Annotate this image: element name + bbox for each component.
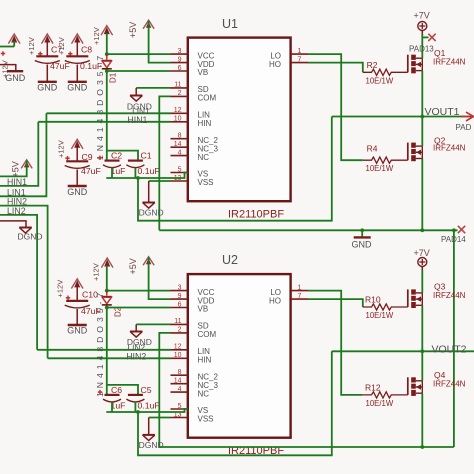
wire Q4 drain to VOUT2 [421, 351, 423, 381]
wire +12V far-left to edge [13, 41, 15, 47]
ground GND for C7 [38, 81, 57, 83]
U1 pin 10 HIN stub [171, 121, 188, 123]
svg-text:9: 9 [178, 56, 182, 63]
svg-text:GND: GND [352, 239, 373, 249]
power symbol +5V for U2 VDD [143, 257, 154, 266]
U1 pin 5 VS stub [171, 172, 188, 174]
svg-text:11: 11 [174, 318, 181, 325]
power symbol +12V for U2 VCC [101, 258, 113, 268]
wire VB row U1 [107, 70, 171, 72]
resistor R12 10E/1W [363, 392, 408, 398]
svg-text:IRFZ44N: IRFZ44N [433, 144, 466, 153]
svg-text:+12V: +12V [27, 37, 36, 55]
svg-text:GND: GND [67, 187, 88, 197]
svg-text:IR2110PBF: IR2110PBF [228, 209, 284, 221]
svg-text:HO: HO [269, 296, 281, 305]
wire VB U2 down to bootstrap caps [106, 308, 108, 395]
wire right-edge ground vertical [453, 230, 455, 447]
wire LIN row U2 from net LIN2 [37, 349, 170, 351]
svg-text:C5: C5 [141, 385, 152, 395]
off-page arrow VOUT1 [461, 116, 474, 118]
wire SD U2 to DGND [136, 323, 170, 325]
svg-text:U2: U2 [222, 253, 238, 267]
power symbol +12V for C7 [42, 34, 54, 44]
no-connect X PAD14 [458, 226, 465, 233]
wire to DGND far-left [0, 221, 26, 228]
ground GND on bus [361, 230, 363, 237]
U1 pin 12 LIN stub [171, 112, 188, 114]
digital ground DGND at U2 VSS [143, 434, 155, 436]
U1 pin 8 NC_2 stub [171, 138, 188, 140]
svg-text:VB: VB [198, 68, 209, 77]
node junction +12V/VCC [105, 52, 109, 56]
capacitor C5 0.1uF [128, 394, 143, 396]
svg-text:+7V: +7V [414, 11, 430, 21]
capacitor C9 47uF [76, 146, 78, 161]
wire +7V to Q1 drain [421, 31, 423, 35]
wire COM U1 down to ground bus [159, 96, 170, 230]
wire bootstrap caps bottom to VS U1 [106, 173, 188, 179]
svg-text:10E/1W: 10E/1W [366, 399, 394, 408]
U2 pin 9 VDD stub [171, 298, 188, 300]
svg-text:11: 11 [174, 82, 181, 89]
svg-text:12: 12 [174, 344, 182, 351]
svg-text:C8: C8 [81, 45, 92, 55]
svg-text:+12V: +12V [92, 27, 101, 45]
svg-text:2: 2 [178, 90, 182, 97]
wire ground bus below U2 [159, 446, 454, 448]
svg-text:47uF: 47uF [81, 166, 101, 176]
U2 pin 1 LO stub [291, 290, 308, 292]
wire HIN row U1 from net HIN1 [38, 121, 170, 123]
transistor Q1 IRFZ44N [407, 55, 409, 73]
gate driver IC U2 IR2110PBF body [188, 274, 291, 438]
svg-text:R12: R12 [365, 383, 381, 393]
resistor R10 10E/1W [363, 304, 408, 310]
svg-text:1: 1 [298, 284, 302, 291]
U2 pin 13 VSS stub [171, 417, 188, 419]
svg-text:VOUT2: VOUT2 [432, 343, 467, 355]
svg-text:1N4148DO35-7: 1N4148DO35-7 [95, 289, 105, 397]
svg-text:DGND: DGND [139, 208, 164, 218]
wire VB branch to C1 [107, 151, 138, 161]
power symbol +12V for U1 VCC [101, 26, 113, 36]
svg-text:Q4: Q4 [434, 370, 446, 380]
capacitor C8 0.1uF [76, 41, 78, 56]
svg-text:GND: GND [67, 326, 88, 336]
stub PAD13 with no-connect X [422, 36, 428, 38]
wire +7V to Q3 drain [421, 267, 423, 271]
svg-text:R4: R4 [367, 144, 378, 154]
U2 pin 12 LIN stub [171, 349, 188, 351]
wire LO U1 to R4 [308, 54, 363, 160]
svg-text:0.1uF: 0.1uF [138, 401, 160, 411]
svg-text:1: 1 [298, 48, 302, 55]
wire Q1 source to VOUT1 [421, 71, 423, 117]
svg-text:47uF: 47uF [50, 61, 70, 71]
U2 pin 7 HO stub [291, 298, 308, 300]
node junction caps bottom / VS branch [136, 176, 140, 180]
wire +12V to U1 VCC [106, 33, 108, 54]
power symbol +5V for U1 VDD [143, 20, 154, 29]
svg-text:IRFZ44N: IRFZ44N [433, 291, 466, 300]
capacitor C7 47uF [46, 41, 48, 56]
wire HIN row U2 from net HIN2 [48, 357, 171, 359]
svg-text:+7V: +7V [414, 248, 430, 258]
power symbol +12V far-left [8, 34, 20, 44]
U2 pin 3 VCC stub [171, 290, 188, 292]
power symbol +5V far-left [21, 160, 32, 169]
wire +5V to U1 VDD [149, 21, 171, 63]
wire COM U2 down to ground bus [159, 333, 170, 447]
svg-text:GND: GND [5, 73, 26, 83]
U2 pin 11 SD stub [171, 323, 188, 325]
U2 pin 10 HIN stub [171, 357, 188, 359]
svg-text:6: 6 [178, 65, 182, 72]
U1 pin 6 VB stub [171, 70, 188, 72]
capacitor C2 1uF [105, 160, 120, 162]
diode D2 1N4148 [106, 291, 108, 296]
node junction +12V/VCC U2 [105, 289, 109, 293]
wire Q3 source to VOUT2 [421, 305, 423, 351]
svg-text:HIN: HIN [198, 119, 212, 128]
U1 pin 11 SD stub [171, 87, 188, 89]
svg-text:NC: NC [198, 153, 210, 162]
svg-text:3: 3 [178, 284, 182, 291]
U2 pin 5 VS stub [171, 408, 188, 410]
wire VB U2 branch to C5 [107, 385, 138, 395]
wire +5V to U2 VDD [149, 257, 171, 299]
svg-text:HO: HO [269, 60, 281, 69]
ground GND for C8 [68, 81, 87, 83]
U2 pin 2 COM stub [171, 332, 188, 334]
wire Q2 drain to VOUT1 [421, 117, 423, 147]
wire VCC row U1 [107, 53, 171, 55]
U1 pin 14 NC_3 stub [171, 146, 188, 148]
wire HIN1 from edge up to U1 HIN [0, 122, 38, 186]
svg-text:9: 9 [178, 293, 182, 300]
svg-text:10: 10 [174, 352, 182, 359]
node junction VOUT2 half-bridge [420, 349, 424, 353]
svg-text:3: 3 [178, 48, 182, 55]
svg-text:HIN2: HIN2 [126, 351, 146, 361]
power symbol +12V for C9 [71, 139, 83, 149]
svg-text:R2: R2 [367, 60, 378, 70]
svg-text:8: 8 [178, 369, 182, 376]
svg-text:IRFZ44N: IRFZ44N [433, 380, 466, 389]
wire VB down to bootstrap caps [106, 71, 108, 161]
svg-text:+12V: +12V [56, 280, 65, 298]
node junction bus to right-edge vertical [452, 228, 456, 232]
U2 pin 8 NC_2 stub [171, 374, 188, 376]
svg-text:VB: VB [198, 305, 209, 314]
svg-text:8: 8 [178, 133, 182, 140]
wire LIN1 from edge up to U1 LIN [0, 113, 46, 196]
wire HIN2 from edge down to U2 HIN [0, 206, 48, 359]
svg-text:DGND: DGND [17, 231, 42, 241]
wire +12V to U2 VCC [106, 266, 108, 291]
svg-text:C1: C1 [141, 151, 152, 161]
svg-text:HIN1: HIN1 [127, 115, 147, 125]
svg-text:C2: C2 [111, 151, 122, 161]
transistor Q4 IRFZ44N [407, 377, 409, 395]
wire bootstrap caps bottom to VS U2 [106, 409, 188, 412]
svg-text:5: 5 [178, 403, 182, 410]
wire VOUT1 horizontal [332, 116, 474, 118]
svg-text:PAD13: PAD13 [409, 45, 434, 54]
U1 pin 1 LO stub [291, 53, 308, 55]
node junction VB/D1 [105, 69, 109, 73]
svg-text:14: 14 [174, 141, 182, 148]
power symbol +12V for C8 [72, 34, 84, 44]
wire LO U2 to R12 [308, 291, 363, 395]
digital ground DGND far-left [19, 227, 31, 229]
U1 pin 13 VSS stub [171, 180, 188, 182]
svg-text:+12V: +12V [57, 37, 66, 55]
svg-text:14: 14 [174, 378, 182, 385]
svg-text:4: 4 [178, 149, 182, 156]
resistor R4 10E/1W [363, 157, 408, 163]
U2 pin 6 VB stub [171, 307, 188, 309]
wire VOUT2 horizontal [332, 350, 474, 352]
U2 pin 4 NC stub [171, 391, 188, 393]
diode D1 1N4148 [106, 54, 108, 59]
svg-text:D1: D1 [109, 72, 118, 83]
U1 pin 4 NC stub [171, 155, 188, 157]
wire +5V far-left to edge [0, 160, 27, 176]
svg-text:VOUT1: VOUT1 [425, 106, 460, 118]
svg-text:NC: NC [198, 389, 210, 398]
ground GND far-left partial [0, 65, 16, 71]
wire VB row U2 [107, 307, 171, 309]
gate driver IC U1 IR2110PBF body [188, 38, 291, 202]
wire VS net U1 down and around to VOUT1 [138, 117, 332, 221]
wire Q2 source to ground bus [421, 159, 423, 231]
transistor Q3 IRFZ44N [407, 289, 409, 307]
digital ground DGND at U1 SD [130, 95, 142, 97]
wire VSS U1 to DGND [149, 180, 171, 182]
svg-text:1N4148DO35-7: 1N4148DO35-7 [95, 52, 105, 160]
wire ground bus below U1 [159, 229, 457, 231]
svg-text:IRFZ44N: IRFZ44N [433, 58, 466, 67]
svg-text:GND: GND [37, 83, 58, 93]
svg-text:+12V: +12V [57, 140, 66, 158]
ground GND for C9 [68, 185, 87, 187]
node junction VOUT1 half-bridge [420, 115, 424, 119]
svg-text:2: 2 [178, 327, 182, 334]
node junction caps bottom / VS branch U2 [136, 410, 140, 414]
wire HO U1 to R2 [308, 63, 363, 73]
capacitor C10 47uF [76, 286, 78, 301]
svg-text:10E/1W: 10E/1W [366, 77, 394, 86]
U1 pin 7 HO stub [291, 62, 308, 64]
wire SD U1 to DGND [136, 87, 170, 89]
svg-text:10E/1W: 10E/1W [366, 164, 394, 173]
transistor Q2 IRFZ44N [407, 143, 409, 161]
power symbol +12V for C10 [71, 279, 83, 289]
svg-text:7: 7 [298, 293, 302, 300]
svg-text:+12V: +12V [92, 263, 101, 281]
wire HO U2 to R10 [308, 299, 363, 307]
ground GND for C10 [68, 324, 87, 326]
svg-text:7: 7 [298, 56, 302, 63]
svg-text:COM: COM [198, 330, 217, 339]
svg-text:COM: COM [198, 94, 217, 103]
svg-text:+5V: +5V [128, 22, 138, 38]
svg-text:Q1: Q1 [434, 48, 446, 58]
svg-text:HIN: HIN [198, 356, 212, 365]
node junction VB/D2 [105, 306, 109, 310]
wire VS net U2 down and around to VOUT2 [138, 351, 332, 455]
wire LIN row U1 from net LIN1 [46, 112, 170, 114]
U1 pin 2 COM stub [171, 95, 188, 97]
svg-text:12: 12 [174, 107, 182, 114]
svg-text:U1: U1 [222, 17, 238, 31]
U1 pin 3 VCC stub [171, 53, 188, 55]
wire LIN2 from edge down to U2 LIN [0, 215, 37, 350]
capacitor C1 0.1uF [128, 160, 143, 162]
svg-text:+5V: +5V [128, 258, 138, 274]
wire Q4 source to ground bus [421, 393, 423, 447]
svg-text:VSS: VSS [198, 415, 214, 424]
svg-text:+5V: +5V [11, 161, 21, 177]
svg-text:0.1uF: 0.1uF [138, 166, 160, 176]
digital ground DGND at U1 VSS [143, 202, 155, 204]
svg-text:GND: GND [67, 83, 88, 93]
wire VSS U2 to DGND [149, 417, 171, 419]
svg-text:R10: R10 [365, 295, 381, 305]
svg-text:10: 10 [174, 116, 182, 123]
svg-text:C9: C9 [82, 152, 93, 162]
svg-text:PAD: PAD [456, 123, 472, 132]
svg-text:10E/1W: 10E/1W [366, 311, 394, 320]
capacitor C6 1uF [105, 394, 120, 396]
U2 pin 14 NC_3 stub [171, 383, 188, 385]
digital ground DGND at U2 SD [130, 331, 142, 333]
svg-text:DGND: DGND [139, 440, 164, 450]
resistor R2 10E/1W [363, 69, 408, 75]
svg-text:Q3: Q3 [434, 282, 446, 292]
svg-text:6: 6 [178, 301, 182, 308]
svg-text:C6: C6 [111, 385, 122, 395]
svg-text:5: 5 [178, 166, 182, 173]
U1 pin 9 VDD stub [171, 62, 188, 64]
svg-text:VSS: VSS [198, 178, 214, 187]
svg-text:4: 4 [178, 386, 182, 393]
